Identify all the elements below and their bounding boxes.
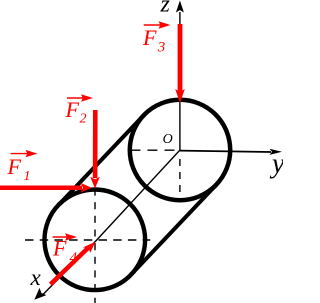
svg-text:z: z [160,0,171,17]
svg-text:1: 1 [24,169,31,184]
F2 label vector hat [67,97,87,99]
F4 label vector hat [53,236,71,238]
svg-text:F: F [52,236,67,261]
svg-text:F: F [65,97,80,122]
x-axis arrowhead [34,288,46,300]
svg-text:F: F [7,154,22,179]
F1 label vector hat [11,153,31,155]
dashed hidden line: z-axis continuation below origin O [179,153,181,202]
z-axis arrowhead [176,1,184,13]
z-axis line [179,12,181,150]
dashed hidden line: bottom circle horizontal diameter [25,239,150,241]
cylinder lower-right tangent edge [131,185,216,275]
x-axis line (through both cylinder face centers) [42,150,180,296]
cylinder bottom face circle [45,190,146,291]
svg-text:4: 4 [70,250,78,266]
force F4 arrow (along x-axis toward bottom face center) [51,248,89,285]
force F3 arrow (downward onto top face) [178,24,183,92]
svg-text:F: F [142,25,157,50]
cylinder top face circle [130,100,230,200]
y-axis arrowhead [270,149,283,155]
force F2 arrow (downward onto upper tangent / cylinder top) [93,110,98,178]
dashed hidden line: bottom circle vertical diameter [94,189,96,303]
y-axis line [180,151,271,152]
svg-text:2: 2 [80,112,87,127]
svg-text:x: x [30,265,42,290]
cylinder upper-left tangent edge [58,115,143,205]
svg-text:3: 3 [157,39,166,55]
svg-text:O: O [163,132,173,147]
F3 label vector hat [144,24,164,26]
force F1 arrow (horizontal from left) [0,185,82,190]
svg-text:y: y [269,149,283,180]
dashed hidden line: left half of top circle horizontal diameter [131,149,181,151]
